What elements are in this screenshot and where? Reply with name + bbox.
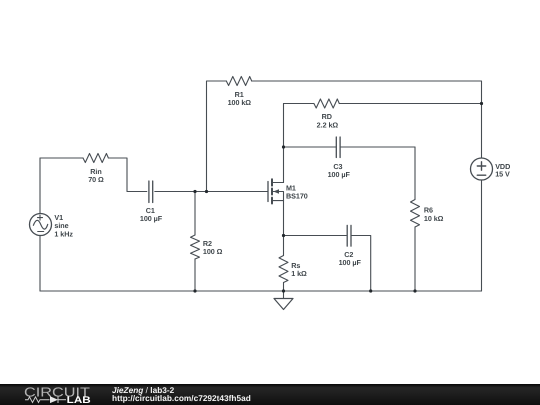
capacitor C3 xyxy=(284,137,416,158)
voltage source V1 xyxy=(30,214,52,236)
wire xyxy=(40,157,83,159)
resistor R2 xyxy=(191,192,200,292)
transistor M1 xyxy=(268,179,284,203)
svg-text:BS170: BS170 xyxy=(286,192,308,201)
svg-text:100 Ω: 100 Ω xyxy=(203,247,223,256)
node dots xyxy=(193,102,483,293)
label C1 xyxy=(140,206,163,223)
label VDD xyxy=(495,162,510,179)
svg-text:1 kHz: 1 kHz xyxy=(54,230,73,239)
label C2 xyxy=(339,250,362,267)
wire xyxy=(108,158,146,192)
capacitor C1 xyxy=(149,181,153,203)
wire xyxy=(283,104,285,183)
wire xyxy=(284,235,347,237)
resistor R1 xyxy=(207,77,482,192)
label Rs xyxy=(291,261,307,278)
svg-text:100 µF: 100 µF xyxy=(339,258,362,267)
capacitor C2 xyxy=(347,225,371,291)
resistor R6 xyxy=(411,147,420,291)
node C2/bottom junction xyxy=(369,289,372,292)
node R6/bottom junction xyxy=(413,289,416,292)
resistor Rs xyxy=(279,236,288,292)
node Rs/ground junction xyxy=(282,289,285,292)
label R1 xyxy=(228,90,252,107)
node source/C2/Rs junction xyxy=(282,234,285,237)
resistor RD xyxy=(284,99,482,108)
label R2 xyxy=(203,239,223,256)
node C1/R2 junction xyxy=(193,190,196,193)
wire xyxy=(39,236,41,292)
ground xyxy=(274,291,293,310)
resistor Rin xyxy=(83,154,108,163)
label M1 xyxy=(286,184,308,201)
label R6 xyxy=(424,206,444,223)
svg-text:100 µF: 100 µF xyxy=(140,214,163,223)
node R2/bottom junction xyxy=(193,289,196,292)
label C3 xyxy=(328,162,351,179)
svg-text:2.2 kΩ: 2.2 kΩ xyxy=(317,120,339,129)
node R1 leg junction xyxy=(205,190,208,193)
svg-text:1 kΩ: 1 kΩ xyxy=(291,269,307,278)
wire xyxy=(40,290,482,292)
wire xyxy=(155,191,268,193)
wire xyxy=(39,158,41,214)
svg-text:100 kΩ: 100 kΩ xyxy=(228,98,252,107)
voltage source VDD xyxy=(471,158,493,180)
svg-text:15 V: 15 V xyxy=(495,170,510,179)
wire xyxy=(283,201,285,236)
label Rin xyxy=(88,167,104,184)
wire xyxy=(481,180,483,291)
CircuitLab logo xyxy=(0,384,100,405)
node RD/VDD junction xyxy=(480,102,483,105)
svg-text:100 µF: 100 µF xyxy=(328,170,351,179)
node drain/C3 junction xyxy=(282,145,285,148)
svg-text:70 Ω: 70 Ω xyxy=(88,175,104,184)
svg-text:LAB: LAB xyxy=(67,395,91,405)
label V1 xyxy=(54,213,73,239)
svg-text:10 kΩ: 10 kΩ xyxy=(424,214,444,223)
label RD xyxy=(317,112,339,129)
